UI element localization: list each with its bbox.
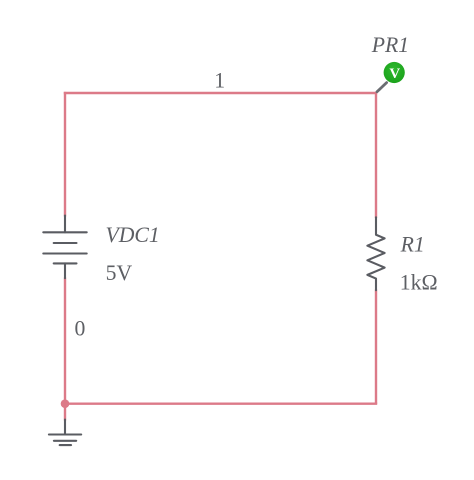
- svg-text:R1: R1: [400, 233, 425, 257]
- wire top segment (net 1): [64, 92, 377, 94]
- label PR1: [371, 33, 409, 57]
- value 5V: [106, 261, 133, 285]
- net label 0: [75, 317, 86, 341]
- svg-text:5V: 5V: [106, 261, 133, 285]
- label R1: [400, 233, 425, 257]
- resistor R1: [367, 217, 384, 290]
- label VDC1: [106, 223, 160, 247]
- ground: [49, 420, 81, 446]
- probe PR1 V marker: [389, 66, 400, 82]
- wire left upper segment: [64, 92, 66, 217]
- svg-text:V: V: [389, 66, 400, 82]
- wire ground stub: [64, 404, 66, 421]
- voltage source VDC1: [43, 216, 86, 279]
- probe PR1 body: [384, 62, 405, 83]
- svg-text:1kΩ: 1kΩ: [400, 271, 438, 295]
- svg-text:VDC1: VDC1: [106, 223, 160, 247]
- net label 1: [214, 68, 225, 92]
- svg-text:PR1: PR1: [371, 33, 409, 57]
- junction node 0: [61, 399, 70, 408]
- wire left lower segment: [64, 278, 66, 404]
- value 1kΩ: [400, 271, 438, 295]
- wire bottom segment (net 0): [64, 403, 377, 405]
- probe PR1 stem: [377, 83, 387, 92]
- svg-text:0: 0: [75, 317, 86, 341]
- svg-text:1: 1: [214, 68, 225, 92]
- wire right upper segment: [375, 92, 377, 218]
- wire right lower segment: [375, 290, 377, 404]
